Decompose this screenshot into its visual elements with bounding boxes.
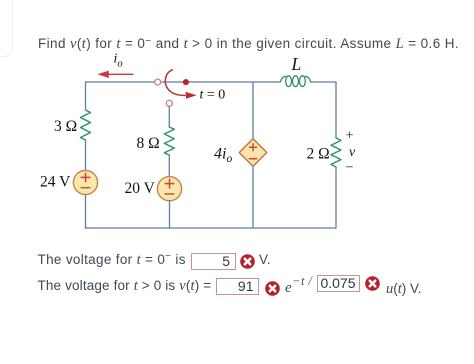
input box 0.075: [317, 275, 360, 293]
resistor 3ohm: [81, 110, 91, 140]
wire dependent-source branch lower: [252, 166, 254, 228]
wire top left segment: [86, 81, 281, 83]
svg-text:−: −: [346, 161, 354, 176]
svg-text:L: L: [291, 54, 302, 74]
answer row 2: [38, 278, 212, 293]
switch terminal lower circle: [166, 100, 172, 106]
svg-text:v: v: [349, 145, 356, 160]
svg-text:4io: 4io: [214, 145, 232, 165]
e^-t/ math: [285, 281, 292, 296]
title line: [38, 36, 459, 51]
wire right branch lower: [335, 167, 337, 228]
svg-text:20 V: 20 V: [125, 180, 156, 197]
switch terminal node (open circle on wire): [155, 79, 161, 85]
wire switch branch to 8ohm: [168, 107, 170, 128]
incorrect icon 2: [265, 281, 280, 296]
svg-text:+: +: [346, 129, 354, 144]
wire dependent-source branch upper: [252, 82, 254, 139]
wire left branch upper: [85, 82, 87, 110]
switch arc with arrow: [165, 70, 196, 99]
voltage source 20V: [157, 177, 181, 201]
dependent source 4io (diamond): [239, 139, 267, 167]
svg-text:3 Ω: 3 Ω: [54, 118, 77, 135]
voltage source 24V: [73, 170, 97, 194]
incorrect icon 1: [240, 254, 255, 269]
svg-text:2 Ω: 2 Ω: [307, 146, 330, 163]
input box 5: [191, 253, 236, 270]
incorrect icon 3: [365, 276, 380, 291]
svg-text:8 Ω: 8 Ω: [137, 135, 160, 152]
resistor 8ohm: [164, 127, 174, 155]
current arrow i_o: [98, 71, 134, 78]
wire left branch lower: [85, 195, 87, 228]
wire left branch middle: [85, 140, 87, 171]
switch node (red junction dot): [183, 79, 189, 85]
wire top right segment after inductor: [311, 81, 336, 83]
faint panel corner top-left: [0, 0, 13, 57]
wire 20V to bottom: [169, 201, 171, 228]
resistor 2ohm: [331, 138, 341, 167]
wire bottom: [86, 227, 337, 229]
u(t) V. label: [386, 281, 422, 296]
svg-text:24 V: 24 V: [40, 174, 71, 191]
inductor L coil: [280, 76, 310, 87]
svg-text:t = 0: t = 0: [200, 88, 226, 103]
answer row 1: [38, 252, 186, 267]
wire right branch upper: [335, 82, 337, 138]
wire 8ohm to 20V: [168, 155, 170, 177]
svg-text:io: io: [114, 52, 123, 70]
input box 91: [216, 278, 259, 296]
